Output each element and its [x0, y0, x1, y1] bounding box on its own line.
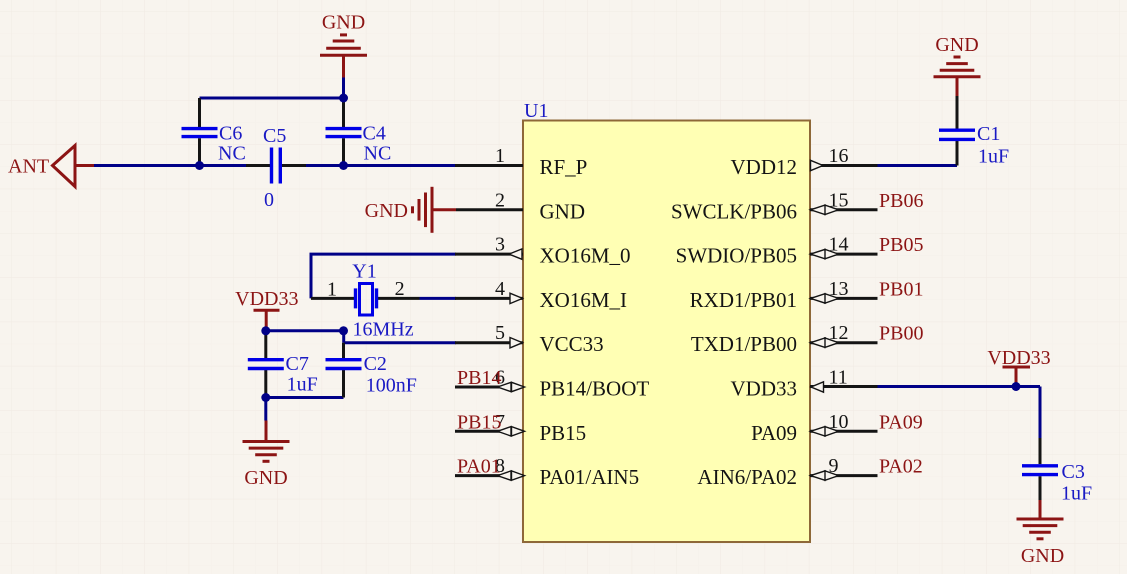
svg-text:16: 16: [829, 145, 849, 167]
svg-text:PB15: PB15: [457, 411, 501, 433]
svg-text:13: 13: [829, 278, 849, 300]
svg-text:C2: C2: [364, 353, 387, 375]
svg-text:PA09: PA09: [879, 411, 923, 433]
svg-text:GND: GND: [365, 200, 408, 222]
svg-text:0: 0: [264, 189, 274, 211]
svg-text:10: 10: [829, 411, 849, 433]
svg-text:16MHz: 16MHz: [353, 319, 414, 341]
svg-text:GND: GND: [540, 199, 586, 223]
svg-text:VDD33: VDD33: [235, 288, 298, 310]
svg-text:11: 11: [829, 367, 848, 389]
svg-text:VCC33: VCC33: [540, 332, 604, 356]
svg-text:PB14/BOOT: PB14/BOOT: [540, 377, 650, 401]
svg-text:PA01/AIN5: PA01/AIN5: [540, 465, 640, 489]
svg-text:2: 2: [495, 189, 505, 211]
svg-text:C5: C5: [263, 125, 286, 147]
svg-text:RXD1/PB01: RXD1/PB01: [690, 288, 797, 312]
svg-text:PB01: PB01: [879, 278, 923, 300]
svg-text:PB14: PB14: [457, 367, 501, 389]
svg-text:VDD12: VDD12: [731, 155, 798, 179]
svg-text:100nF: 100nF: [366, 375, 417, 397]
svg-text:PB05: PB05: [879, 234, 923, 256]
svg-text:SWCLK/PB06: SWCLK/PB06: [671, 199, 797, 223]
svg-text:1uF: 1uF: [978, 146, 1009, 168]
svg-text:12: 12: [829, 322, 849, 344]
svg-text:GND: GND: [1021, 545, 1064, 567]
svg-text:XO16M_I: XO16M_I: [540, 288, 628, 312]
svg-text:14: 14: [829, 234, 849, 256]
svg-text:GND: GND: [244, 467, 287, 489]
svg-text:RF_P: RF_P: [540, 155, 588, 179]
svg-text:NC: NC: [218, 143, 246, 165]
svg-text:C3: C3: [1062, 461, 1085, 483]
svg-text:PB15: PB15: [540, 421, 587, 445]
svg-text:C7: C7: [286, 353, 309, 375]
svg-text:15: 15: [829, 189, 849, 211]
svg-text:PB00: PB00: [879, 323, 923, 345]
svg-text:U1: U1: [524, 100, 548, 122]
svg-text:1uF: 1uF: [287, 374, 318, 396]
svg-text:2: 2: [395, 278, 405, 300]
svg-text:GND: GND: [935, 34, 978, 56]
svg-text:5: 5: [495, 322, 505, 344]
svg-text:1uF: 1uF: [1061, 483, 1092, 505]
svg-text:9: 9: [829, 455, 839, 477]
svg-text:Y1: Y1: [352, 260, 376, 282]
svg-text:VDD33: VDD33: [731, 377, 798, 401]
svg-text:PA02: PA02: [879, 456, 923, 478]
svg-text:C1: C1: [977, 123, 1000, 145]
svg-text:C6: C6: [219, 123, 242, 145]
svg-text:GND: GND: [322, 12, 365, 34]
svg-text:PA09: PA09: [751, 421, 797, 445]
svg-text:ANT: ANT: [8, 156, 49, 178]
svg-text:XO16M_0: XO16M_0: [540, 244, 631, 268]
svg-text:1: 1: [327, 279, 337, 301]
svg-text:PB06: PB06: [879, 190, 923, 212]
svg-text:PA01: PA01: [457, 456, 501, 478]
svg-text:4: 4: [495, 278, 505, 300]
svg-text:1: 1: [495, 145, 505, 167]
svg-text:C4: C4: [363, 123, 386, 145]
svg-text:SWDIO/PB05: SWDIO/PB05: [676, 244, 797, 268]
svg-text:AIN6/PA02: AIN6/PA02: [697, 465, 797, 489]
svg-text:NC: NC: [364, 143, 392, 165]
svg-text:VDD33: VDD33: [987, 347, 1050, 369]
svg-text:3: 3: [495, 234, 505, 256]
svg-text:TXD1/PB00: TXD1/PB00: [691, 332, 797, 356]
